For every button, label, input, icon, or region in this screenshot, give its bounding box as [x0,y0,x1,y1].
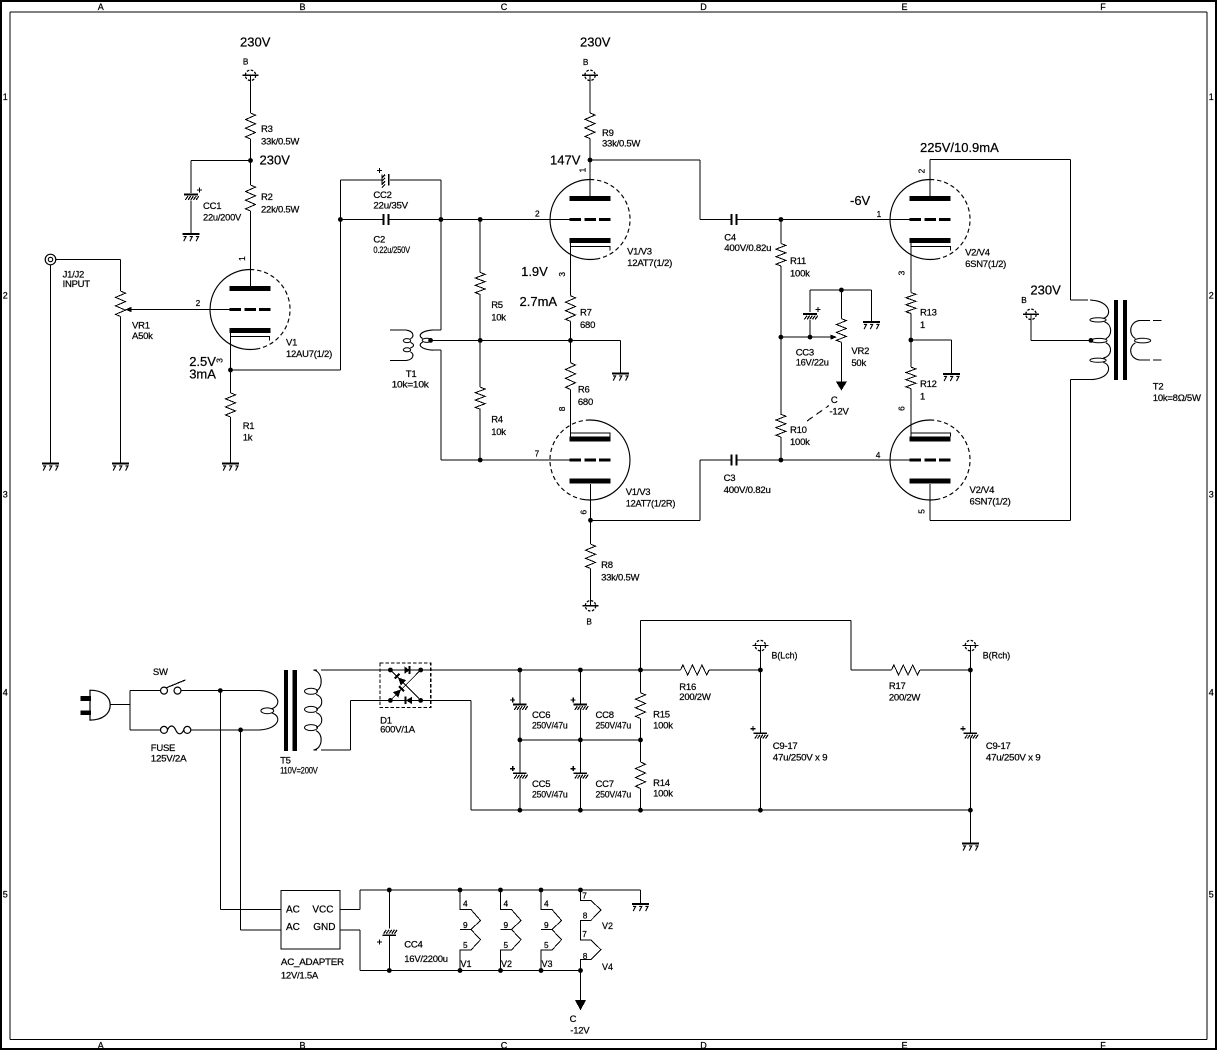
svg-text:250V/47u: 250V/47u [596,789,632,800]
svg-text:400V/0.82u: 400V/0.82u [724,243,771,254]
svg-text:CC1: CC1 [203,201,221,212]
svg-text:680: 680 [578,397,593,408]
svg-text:FUSE: FUSE [151,743,175,754]
svg-text:B: B [299,2,305,12]
svg-text:-6V: -6V [850,193,871,208]
svg-text:9: 9 [504,920,509,930]
svg-text:12AT7(1/2): 12AT7(1/2) [627,258,672,269]
svg-text:A: A [98,1040,104,1050]
svg-text:33k/0.5W: 33k/0.5W [602,139,640,150]
svg-text:250V/47u: 250V/47u [596,720,632,731]
svg-text:C9-17: C9-17 [986,741,1011,752]
svg-text:4: 4 [1209,688,1214,698]
svg-text:R2: R2 [261,192,273,203]
svg-text:R12: R12 [920,379,937,390]
svg-text:R5: R5 [491,300,503,311]
svg-text:230V: 230V [260,153,291,168]
svg-text:E: E [901,1040,907,1050]
svg-text:1: 1 [920,320,925,331]
svg-text:F: F [1100,2,1106,12]
svg-text:B(Lch): B(Lch) [772,650,798,660]
svg-text:1.9V: 1.9V [521,264,548,279]
svg-text:V1: V1 [286,337,297,348]
svg-text:R9: R9 [602,128,614,139]
svg-text:22k/0.5W: 22k/0.5W [261,204,299,215]
svg-text:AC_ADAPTER: AC_ADAPTER [281,957,344,968]
svg-text:V1/V3: V1/V3 [627,247,652,258]
svg-text:33k/0.5W: 33k/0.5W [261,136,299,147]
svg-text:2: 2 [535,208,540,218]
svg-text:230V: 230V [1030,282,1061,297]
svg-text:110V=200V: 110V=200V [280,765,318,776]
svg-text:C: C [501,1040,508,1050]
svg-text:B(Rch): B(Rch) [983,650,1010,660]
svg-text:200/2W: 200/2W [679,692,711,703]
svg-text:8: 8 [557,406,567,411]
svg-text:6SN7(1/2): 6SN7(1/2) [970,497,1011,508]
svg-text:3: 3 [3,490,8,500]
svg-text:R13: R13 [920,308,937,319]
svg-text:CC4: CC4 [404,939,422,950]
svg-text:0.22u/250V: 0.22u/250V [373,245,410,256]
svg-text:47u/250V x 9: 47u/250V x 9 [773,753,828,764]
svg-text:VR1: VR1 [132,320,150,331]
svg-text:T2: T2 [1153,381,1164,392]
svg-text:22u/200V: 22u/200V [203,213,242,224]
svg-text:12V/1.5A: 12V/1.5A [281,970,319,981]
svg-text:3mA: 3mA [189,366,216,381]
svg-text:100k: 100k [790,437,810,448]
svg-text:3: 3 [896,270,906,275]
svg-text:8: 8 [583,951,588,961]
svg-text:5: 5 [544,940,549,950]
svg-text:7: 7 [582,929,587,939]
svg-text:D: D [700,2,707,12]
svg-text:16V/2200u: 16V/2200u [404,954,448,965]
svg-text:4: 4 [876,450,881,460]
svg-text:B: B [299,1040,305,1050]
svg-text:33k/0.5W: 33k/0.5W [601,572,639,583]
svg-text:250V/47u: 250V/47u [532,789,568,800]
svg-text:4: 4 [463,898,468,908]
svg-text:V2: V2 [501,959,512,969]
svg-text:680: 680 [580,320,595,331]
svg-text:1: 1 [1209,92,1214,102]
svg-text:9: 9 [463,920,468,930]
svg-text:230V: 230V [580,35,611,50]
svg-text:10k=10k: 10k=10k [392,380,430,391]
svg-text:600V/1A: 600V/1A [380,724,416,735]
svg-text:CC2: CC2 [373,190,391,201]
svg-text:B: B [243,56,249,66]
svg-text:R10: R10 [790,425,807,436]
svg-text:5: 5 [463,940,468,950]
svg-text:6: 6 [896,406,906,411]
svg-text:12AU7(1/2): 12AU7(1/2) [286,349,332,360]
svg-text:5: 5 [3,890,8,900]
svg-text:R8: R8 [601,560,613,571]
svg-text:-12V: -12V [570,1026,590,1037]
svg-text:12AT7(1/2R): 12AT7(1/2R) [626,498,676,509]
svg-text:2: 2 [3,291,8,301]
svg-text:R15: R15 [653,709,670,720]
svg-text:E: E [901,2,907,12]
svg-text:147V: 147V [550,152,581,167]
svg-text:3: 3 [1209,490,1214,500]
svg-text:-12V: -12V [830,406,850,417]
svg-text:A: A [98,2,104,12]
svg-text:2.7mA: 2.7mA [520,294,558,309]
svg-text:22u/35V: 22u/35V [373,200,408,211]
svg-text:5: 5 [504,940,509,950]
svg-text:C9-17: C9-17 [773,741,798,752]
svg-text:AC: AC [286,922,300,933]
svg-text:C2: C2 [373,235,385,246]
svg-text:R3: R3 [261,124,273,135]
svg-text:1: 1 [578,167,588,172]
svg-text:1: 1 [920,392,925,403]
svg-text:230V: 230V [240,35,271,50]
svg-text:C: C [501,2,508,12]
svg-text:B: B [586,617,592,627]
svg-text:B: B [1021,295,1027,305]
svg-text:C: C [570,1014,577,1025]
svg-text:VCC: VCC [312,904,333,915]
svg-text:C4: C4 [724,233,736,244]
svg-text:100k: 100k [790,269,810,280]
svg-text:GND: GND [313,922,335,933]
svg-text:10k=8Ω/5W: 10k=8Ω/5W [1153,393,1201,404]
svg-text:47u/250V x 9: 47u/250V x 9 [986,753,1041,764]
svg-text:5: 5 [1209,890,1214,900]
svg-text:6SN7(1/2): 6SN7(1/2) [965,259,1006,270]
svg-text:R11: R11 [790,256,806,267]
svg-text:R14: R14 [653,778,670,789]
svg-text:VR2: VR2 [851,346,869,357]
svg-text:B: B [583,57,589,67]
svg-text:V1/V3: V1/V3 [626,487,651,498]
svg-text:C3: C3 [724,473,736,484]
svg-text:4: 4 [3,688,8,698]
svg-text:INPUT: INPUT [63,279,91,290]
svg-text:AC: AC [286,904,300,915]
svg-text:8: 8 [583,910,588,920]
svg-text:4: 4 [504,898,509,908]
svg-text:2: 2 [917,168,927,173]
svg-text:V2: V2 [602,921,613,931]
svg-text:200/2W: 200/2W [889,692,921,703]
svg-text:R4: R4 [491,415,503,426]
svg-text:V3: V3 [542,959,553,969]
svg-text:1: 1 [877,209,882,219]
svg-text:100k: 100k [653,720,673,731]
svg-text:2: 2 [1209,291,1214,301]
svg-text:D: D [700,1040,707,1050]
svg-text:5: 5 [917,509,927,514]
svg-text:4: 4 [544,898,549,908]
svg-text:225V/10.9mA: 225V/10.9mA [920,140,999,155]
svg-text:100k: 100k [653,788,673,799]
svg-text:1k: 1k [243,433,253,444]
svg-text:T1: T1 [406,369,417,380]
svg-text:250V/47u: 250V/47u [532,720,568,731]
svg-text:SW: SW [153,667,168,678]
svg-text:50k: 50k [851,358,866,369]
svg-text:10k: 10k [491,312,506,323]
svg-text:9: 9 [544,920,549,930]
svg-text:R7: R7 [580,308,592,319]
svg-text:10k: 10k [491,427,506,438]
svg-text:7: 7 [582,890,587,900]
svg-text:2: 2 [196,298,201,308]
svg-text:V1: V1 [461,959,472,969]
svg-text:125V/2A: 125V/2A [151,754,187,765]
svg-text:6: 6 [578,510,588,515]
svg-text:1: 1 [237,256,247,261]
svg-text:16V/22u: 16V/22u [796,358,829,369]
svg-text:R1: R1 [243,421,255,432]
svg-text:V2/V4: V2/V4 [970,485,995,496]
svg-text:R17: R17 [889,681,906,692]
svg-text:A50k: A50k [132,331,153,342]
svg-text:F: F [1100,1040,1106,1050]
svg-text:400V/0.82u: 400V/0.82u [724,485,771,496]
svg-text:C: C [831,395,838,406]
svg-text:7: 7 [535,449,540,459]
svg-text:3: 3 [557,272,567,277]
svg-text:V4: V4 [602,962,613,972]
svg-text:R6: R6 [578,385,590,396]
svg-text:1: 1 [3,92,8,102]
svg-text:V2/V4: V2/V4 [965,248,990,259]
